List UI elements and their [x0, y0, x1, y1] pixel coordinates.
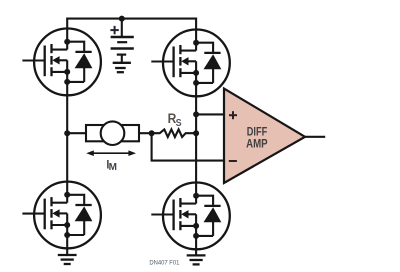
wire minus input: [152, 133, 224, 160]
battery B1: [111, 37, 134, 55]
wire left rail: [66, 95, 68, 182]
wire amp output: [305, 136, 325, 138]
ground (battery): [113, 63, 131, 72]
motor M1: [86, 125, 139, 141]
wire battery drop: [121, 19, 123, 37]
transistor Q3 (bottom left MOSFET): [22, 181, 101, 250]
label + (battery polarity): [110, 26, 118, 34]
node battery tap: [119, 16, 125, 22]
node motor left: [64, 130, 70, 136]
node RS left: [149, 130, 155, 136]
wire battery to ground: [121, 55, 123, 63]
wire motor row left: [67, 132, 86, 134]
wire motor to RS: [139, 132, 152, 134]
wire Q4 source: [195, 249, 197, 255]
wire Q3 source: [66, 249, 68, 256]
node plus tap: [193, 111, 199, 117]
ground (right): [187, 255, 206, 264]
op-amp U1 DIFF AMP: [224, 89, 305, 184]
svg-text:AMP: AMP: [246, 136, 268, 150]
resistor RS: [152, 129, 197, 137]
transistor Q4 (bottom right MOSFET): [151, 181, 230, 250]
wire plus input: [196, 113, 224, 115]
svg-text:DN407 F01: DN407 F01: [149, 260, 180, 267]
wire right rail: [195, 96, 197, 183]
node RS right: [193, 130, 199, 136]
svg-text:M: M: [109, 162, 117, 173]
label + (amp input): [229, 111, 237, 119]
wire top rail: [67, 19, 196, 30]
ground (left): [58, 255, 77, 264]
label - (amp input): [229, 160, 237, 162]
transistor Q2 (top right MOSFET): [151, 28, 230, 97]
current arrow IM: [86, 150, 136, 156]
transistor Q1 (top left MOSFET): [22, 27, 101, 96]
svg-text:S: S: [176, 117, 182, 129]
